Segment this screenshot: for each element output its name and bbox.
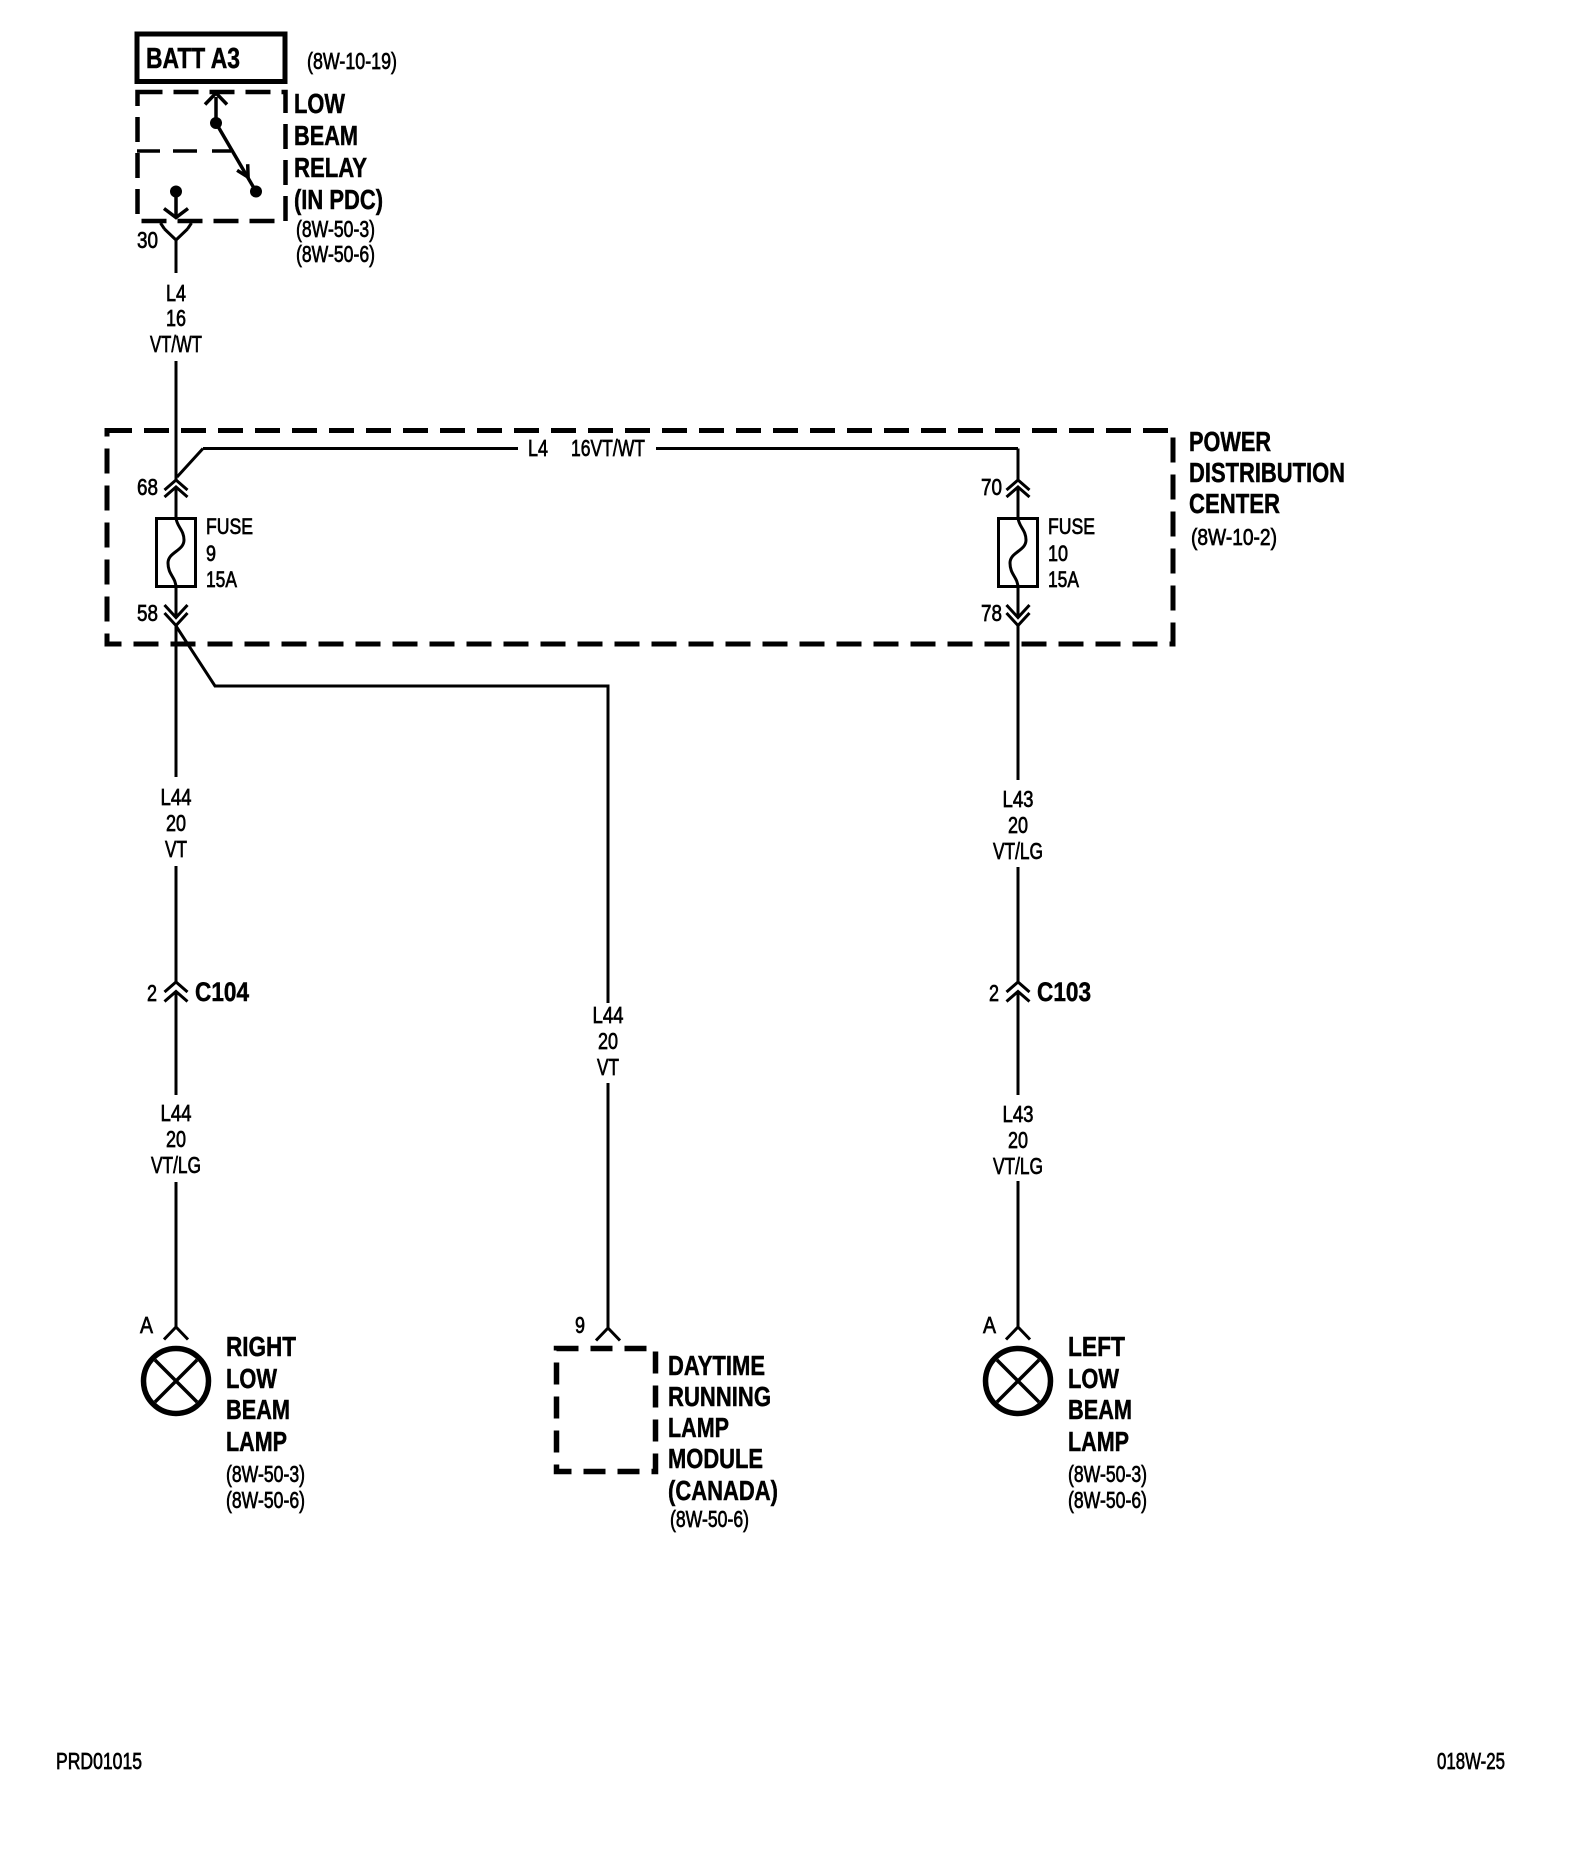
svg-text:C103: C103	[1037, 977, 1091, 1007]
svg-text:(8W-50-3): (8W-50-3)	[1068, 1461, 1147, 1487]
svg-text:78: 78	[981, 600, 1002, 626]
svg-text:20: 20	[598, 1028, 618, 1054]
svg-text:PRD01015: PRD01015	[56, 1748, 142, 1774]
svg-text:(8W-50-3): (8W-50-3)	[296, 216, 375, 242]
svg-text:A: A	[140, 1312, 154, 1338]
svg-text:30: 30	[137, 227, 158, 253]
wire: L43 from fuse 10 pin 78 down to C103 and left low beam lamp	[1017, 588, 1020, 1327]
wire: horizontal L4 16VT/WT net inside PDC to fuse 10	[177, 449, 1018, 518]
svg-text:BEAM: BEAM	[1068, 1394, 1132, 1425]
svg-text:LEFT: LEFT	[1068, 1331, 1125, 1362]
svg-text:15A: 15A	[206, 567, 237, 592]
svg-text:BATT A3: BATT A3	[146, 43, 240, 75]
svg-text:DAYTIME: DAYTIME	[668, 1350, 765, 1381]
relay pin 30 contact dot	[170, 186, 182, 198]
svg-text:FUSE: FUSE	[1048, 514, 1095, 539]
svg-text:L44: L44	[593, 1002, 624, 1028]
svg-text:20: 20	[1008, 812, 1028, 838]
low beam relay K1 dashed box	[138, 92, 286, 221]
svg-text:L4: L4	[166, 280, 186, 306]
svg-text:16VT/WT: 16VT/WT	[571, 435, 645, 461]
svg-text:16: 16	[166, 305, 186, 331]
relay terminal arrow to BATT A3	[205, 93, 227, 123]
svg-text:58: 58	[137, 600, 158, 626]
svg-text:BEAM: BEAM	[226, 1394, 290, 1425]
left low beam lamp	[986, 1349, 1051, 1414]
wire label L44 20 VT/LG (left branch lower)	[151, 1100, 201, 1178]
svg-text:L4: L4	[528, 435, 548, 461]
svg-text:C104: C104	[195, 977, 249, 1007]
svg-text:DISTRIBUTION: DISTRIBUTION	[1189, 457, 1345, 488]
svg-text:L44: L44	[161, 1100, 192, 1126]
relay contact dot (N.O.)	[250, 186, 262, 198]
svg-text:2: 2	[989, 980, 999, 1006]
svg-text:POWER: POWER	[1189, 426, 1271, 457]
relay pin 30 lead arrow to box edge	[164, 196, 188, 218]
svg-text:9: 9	[575, 1312, 585, 1338]
svg-text:VT/WT: VT/WT	[150, 331, 202, 357]
svg-text:20: 20	[166, 1126, 186, 1152]
pin 9 connector (DRL module)	[575, 1312, 620, 1341]
svg-text:(8W-50-3): (8W-50-3)	[226, 1461, 305, 1487]
svg-text:(8W-10-2): (8W-10-2)	[1191, 524, 1277, 550]
svg-text:LOW: LOW	[226, 1363, 277, 1394]
svg-text:LOW: LOW	[1068, 1363, 1119, 1394]
relay label LOW BEAM RELAY (IN PDC)	[294, 88, 383, 267]
svg-text:(CANADA): (CANADA)	[668, 1475, 778, 1506]
svg-text:LAMP: LAMP	[668, 1412, 729, 1443]
svg-text:L44: L44	[161, 784, 192, 810]
svg-text:VT: VT	[597, 1054, 619, 1080]
svg-text:RELAY: RELAY	[294, 152, 367, 183]
svg-text:CENTER: CENTER	[1189, 488, 1280, 519]
pin 70 connector	[981, 474, 1030, 500]
svg-text:BEAM: BEAM	[294, 120, 358, 151]
pin 68 connector	[137, 474, 188, 500]
power distribution center dashed box	[107, 431, 1173, 645]
wire label L43 20 VT/LG (right branch upper)	[993, 786, 1043, 864]
svg-text:L43: L43	[1003, 786, 1034, 812]
relay movable arm with arrow	[216, 123, 256, 192]
svg-text:LAMP: LAMP	[1068, 1426, 1129, 1457]
svg-text:VT/LG: VT/LG	[993, 838, 1043, 864]
svg-text:10: 10	[1048, 541, 1068, 566]
pin 78 connector	[981, 600, 1030, 626]
right low beam lamp	[144, 1349, 209, 1414]
svg-text:(8W-50-6): (8W-50-6)	[296, 241, 375, 267]
svg-text:70: 70	[981, 474, 1002, 500]
fuse 9 15A	[157, 514, 254, 592]
svg-text:VT: VT	[165, 836, 187, 862]
svg-text:L43: L43	[1003, 1101, 1034, 1127]
wire: L44 branch from pin 58 to daytime running lamp module	[176, 626, 608, 1328]
svg-text:VT/LG: VT/LG	[151, 1152, 201, 1178]
svg-text:15A: 15A	[1048, 567, 1079, 592]
svg-text:RIGHT: RIGHT	[226, 1331, 296, 1362]
svg-text:20: 20	[166, 810, 186, 836]
pin 58 connector	[137, 600, 188, 626]
svg-text:LOW: LOW	[294, 88, 345, 119]
pin A connector (right low beam lamp)	[140, 1312, 188, 1340]
svg-text:FUSE: FUSE	[206, 514, 253, 539]
svg-text:VT/LG: VT/LG	[993, 1153, 1043, 1179]
svg-text:(8W-50-6): (8W-50-6)	[226, 1487, 305, 1513]
connector Y at pin 30	[161, 223, 192, 240]
PDC label POWER DISTRIBUTION CENTER	[1189, 426, 1345, 550]
svg-text:(8W-10-19): (8W-10-19)	[307, 48, 397, 74]
daytime running lamp module label	[668, 1350, 778, 1532]
connector C104	[147, 977, 249, 1007]
daytime running lamp module dashed box	[557, 1349, 656, 1472]
relay coil divider dashed line	[137, 149, 231, 153]
svg-text:(8W-50-6): (8W-50-6)	[1068, 1487, 1147, 1513]
right low beam lamp label	[226, 1331, 305, 1513]
svg-text:RUNNING: RUNNING	[668, 1381, 771, 1412]
connector C103	[989, 977, 1091, 1007]
svg-text:9: 9	[206, 541, 216, 566]
svg-text:A: A	[983, 1312, 997, 1338]
svg-text:MODULE: MODULE	[668, 1443, 763, 1474]
svg-text:LAMP: LAMP	[226, 1426, 287, 1457]
pin A connector (left low beam lamp)	[983, 1312, 1030, 1340]
svg-text:(IN PDC): (IN PDC)	[294, 184, 383, 215]
svg-text:(8W-50-6): (8W-50-6)	[670, 1506, 749, 1532]
left low beam lamp label	[1068, 1331, 1147, 1513]
fuse 10 15A	[999, 514, 1096, 592]
wire label L43 20 VT/LG (right branch lower)	[993, 1101, 1043, 1179]
svg-text:68: 68	[137, 474, 158, 500]
relay common contact dot	[210, 117, 222, 129]
wire label L44 20 VT (middle branch)	[593, 1002, 624, 1080]
svg-text:20: 20	[1008, 1127, 1028, 1153]
wire label L4 16 VT/WT	[150, 280, 202, 357]
wire label L44 20 VT (left branch)	[161, 784, 192, 862]
wire: L4 feed from relay pin 30 down to PDC pin 68 / fuse 9	[175, 240, 178, 517]
wire label L4 16VT/WT on horizontal net	[528, 435, 645, 461]
battery feed terminal BATT A3	[137, 34, 285, 82]
svg-text:2: 2	[147, 980, 157, 1006]
svg-text:018W-25: 018W-25	[1437, 1748, 1505, 1774]
wire: L44 from fuse 9 pin 58 down to C104 and right low beam lamp	[175, 588, 178, 1327]
